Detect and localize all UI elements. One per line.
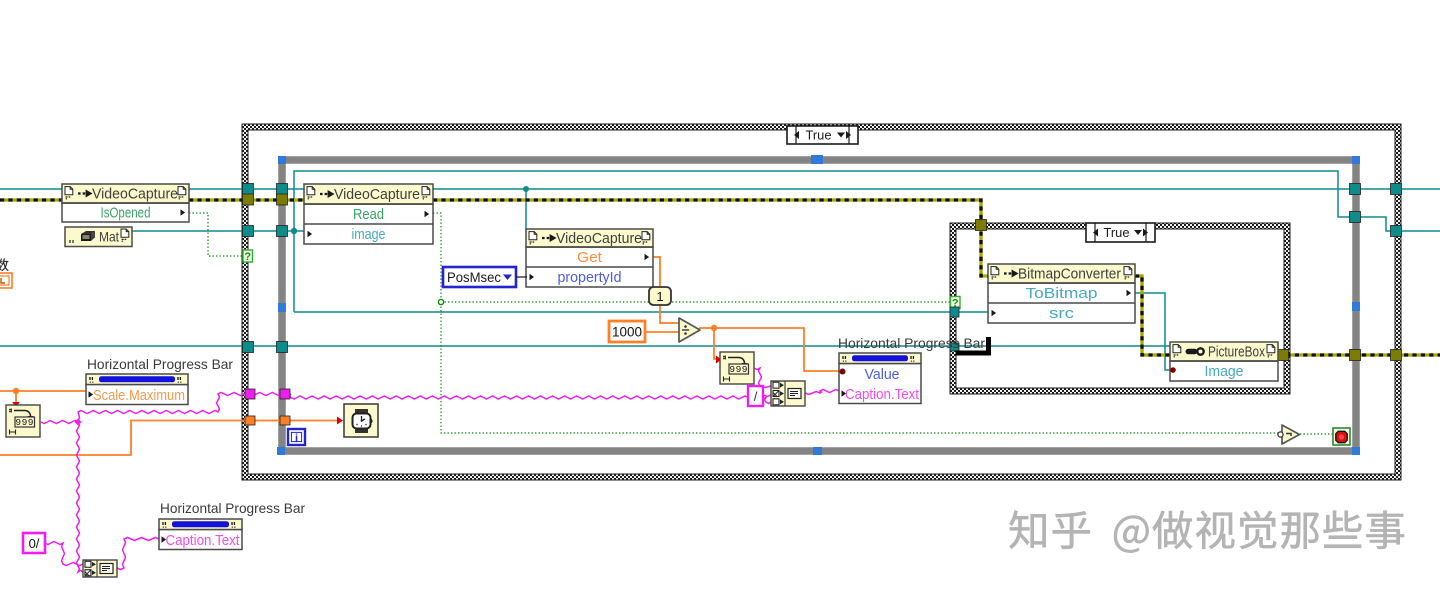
wire: Not gate output to loop condition terminal: [1300, 433, 1333, 435]
node PictureBox Image: [1170, 342, 1278, 381]
wire: error wire VideoCapture.IsOpened to VideoCapture.Read: [189, 198, 304, 201]
svg-text:999: 999: [15, 417, 34, 428]
svg-text:PictureBox: PictureBox: [1208, 345, 1266, 361]
svg-text:1: 1: [656, 289, 663, 304]
tunnel teal loop-right (class): [1350, 184, 1361, 195]
svg-text:Caption.Text: Caption.Text: [845, 387, 919, 403]
wire: string down to bottom concatenate: [77, 422, 84, 572]
wire: ToBitmap output to PictureBox Image: [1133, 293, 1171, 370]
tunnel teal loop-right (image): [1350, 212, 1361, 223]
enum constant PosMsec: [443, 267, 516, 287]
loop condition terminal (stop): [1333, 428, 1350, 445]
case selector terminal (outer): [243, 250, 253, 263]
case structure (inner) True: [950, 223, 1290, 394]
svg-text:Value: Value: [865, 367, 900, 383]
string constant /: [748, 386, 763, 406]
svg-text:Image: Image: [1205, 364, 1244, 380]
while loop border: [282, 160, 1356, 451]
tunnel teal case-right (class): [1391, 184, 1402, 195]
svg-text:1000: 1000: [612, 325, 642, 340]
divide function: [679, 318, 700, 342]
wire: concatenate to Caption.Text of Value property node: [805, 390, 839, 395]
tunnel teal loop-left (class): [277, 184, 288, 195]
watermark zhihu: [1009, 511, 1404, 553]
property node Horizontal Progress Bar Caption.Text (bottom): [159, 519, 242, 550]
svg-text:VideoCapture: VideoCapture: [92, 187, 178, 203]
svg-text:/: /: [754, 389, 758, 404]
tunnel orange case-left: [245, 416, 255, 425]
function number-to-fractional-string (lower): [6, 405, 40, 437]
wire: Mat image wire from Mat constant into loop: [132, 230, 304, 232]
property node Horizontal Progress Bar Value / Caption.Text: [839, 353, 921, 404]
svg-text:image: image: [352, 227, 386, 243]
wire: number-to-string (upper) to concatenate: [754, 368, 771, 388]
wire: image wire routed around loop top to right edge: [294, 171, 1440, 312]
tunnel magenta case-left: [245, 389, 255, 399]
wire: boolean Read result to inner case selector and loop condition: [433, 213, 1279, 433]
wire: error wire (olive dashed) from left edge to VideoCapture: [0, 198, 62, 201]
case structure (outer) True: [242, 124, 1401, 480]
wire: PictureBox control reference (teal) from left edge: [0, 345, 1170, 347]
wire junction: boolean branch: [438, 299, 443, 304]
svg-text:propertyId: propertyId: [558, 270, 622, 286]
svg-text:True: True: [806, 128, 832, 143]
string constant 0/: [23, 533, 45, 553]
node BitmapConverter ToBitmap: [988, 264, 1135, 323]
function concatenate strings (bottom): [83, 560, 117, 577]
svg-text:Caption.Text: Caption.Text: [166, 533, 240, 549]
tunnel olive inner-case-right (error out): [1278, 350, 1289, 361]
property node Horizontal Progress Bar Scale.Maximum: [86, 374, 188, 405]
tunnel teal loop-left (image): [277, 226, 288, 237]
svg-text:999: 999: [729, 364, 748, 375]
wire: divide output to Value and to number-to-string: [699, 328, 839, 371]
svg-text:PosMsec: PosMsec: [447, 270, 501, 285]
function number-to-fractional-string (upper): [720, 352, 754, 384]
svg-text:Scale.Maximum: Scale.Maximum: [93, 388, 185, 404]
numeric constant 1000: [609, 321, 645, 342]
svg-text:Read: Read: [353, 207, 384, 223]
tunnel olive case-left (error): [243, 194, 254, 205]
svg-text:VideoCapture: VideoCapture: [334, 187, 420, 203]
function concatenate strings (middle): [771, 381, 805, 406]
tunnel orange loop-left: [280, 416, 290, 425]
label (clipped chinese char): [0, 258, 9, 271]
case selector terminal (inner): [951, 297, 961, 310]
svg-text:IsOpened: IsOpened: [101, 206, 151, 222]
iteration terminal i: [288, 429, 305, 445]
wire: Get output (orange) down to divide: [650, 257, 679, 323]
tunnel teal case-left (class): [243, 184, 254, 195]
svg-text:BitmapConverter: BitmapConverter: [1018, 267, 1121, 283]
loop selection handle: [278, 303, 286, 312]
tunnel teal case-left (picbox ref): [243, 342, 254, 353]
function Wait (ms): [344, 404, 378, 437]
wire: image wire to BitmapConverter src: [294, 311, 988, 313]
svg-text:True: True: [1104, 225, 1130, 240]
loop selection handle: [1352, 447, 1360, 455]
Not gate: [1278, 425, 1300, 444]
wire: error wire across loop, down into inner case to BitmapConverter: [433, 200, 988, 276]
svg-text:i: i: [295, 433, 298, 445]
tunnel teal case-right (image): [1391, 226, 1402, 237]
svg-text:Mat: Mat: [99, 229, 119, 245]
wire stub enum to propertyId: [516, 276, 527, 278]
red input arrow into wait-like node: [716, 356, 722, 364]
case selector label True (outer): [787, 126, 858, 144]
numeric constant 1: [649, 287, 671, 305]
tunnel olive loop-left (error): [277, 194, 288, 205]
svg-text:src: src: [1049, 306, 1074, 322]
loop selection handle: [1352, 302, 1360, 311]
wire: bottom concatenate to Caption.Text: [117, 538, 159, 570]
constant Mat: [65, 227, 132, 247]
tunnel magenta loop-left: [280, 389, 290, 399]
wire: error wire PictureBox out to right edge: [1278, 353, 1440, 356]
wire: orange from left edge to Wait node through loop tunnels: [0, 421, 337, 456]
wire: / constant to concatenate: [763, 395, 771, 397]
tunnel olive inner-case-top (error in): [976, 220, 987, 231]
node VideoCapture Get: [526, 229, 653, 287]
loop selection handle: [277, 447, 285, 455]
svg-text:Get: Get: [577, 250, 602, 266]
wire: string wavy from number-to-string to progress caption (left section): [41, 421, 78, 424]
node VideoCapture Read: [304, 184, 433, 244]
wire: string wavy inside loop to concatenate: [286, 394, 771, 404]
wire: error wire BitmapConverter to PictureBox: [1135, 276, 1170, 355]
wire: 1000 constant to divide: [645, 331, 679, 333]
wire junction: class ref branch to VideoCapture Get: [523, 186, 529, 192]
tunnel olive case-right (error): [1391, 350, 1402, 361]
svg-text:VideoCapture: VideoCapture: [556, 231, 642, 247]
loop selection handle: [278, 156, 286, 164]
wire junction: divide output: [711, 325, 717, 331]
tunnel teal inner-case-left (src): [950, 307, 959, 317]
svg-text:Horizontal Progress Bar: Horizontal Progress Bar: [87, 357, 233, 372]
case selector label True (inner): [1086, 223, 1155, 242]
wire junction: image wire: [291, 228, 297, 234]
wire: boolean IsOpened to outer case selector (green dotted): [189, 213, 243, 256]
svg-text:ToBitmap: ToBitmap: [1026, 286, 1098, 302]
svg-text:Horizontal Progress Bar: Horizontal Progress Bar: [838, 336, 985, 351]
svg-text:Horizontal Progress Bar: Horizontal Progress Bar: [160, 501, 305, 516]
clipped numeric control at left edge: [0, 273, 12, 288]
loop selection handle: [1352, 156, 1360, 164]
wire: VideoCapture class ref (teal) from left edge through loop: [0, 188, 1351, 190]
wire: 0/ constant to concatenate: [45, 542, 83, 566]
loop selection handle: [811, 155, 823, 164]
wire junction: [13, 388, 19, 394]
loop selection handle: [813, 447, 822, 455]
tunnel teal inner-case-left (picbox ref): [950, 343, 959, 351]
tunnel olive loop-right (error): [1350, 350, 1361, 361]
tunnel teal loop-left (picbox ref): [277, 342, 288, 353]
wire junction: string branch: [74, 418, 81, 425]
tunnel teal case-left (image): [243, 226, 254, 237]
wire: class ref exits loop/case to right edge: [1351, 188, 1440, 190]
wire: scale maximum orange from left edge: [0, 390, 86, 392]
node VideoCapture IsOpened: [62, 184, 189, 222]
svg-text:0/: 0/: [29, 536, 40, 551]
svg-text:?: ?: [244, 251, 251, 263]
black wire corner near progress bar label: [956, 337, 989, 353]
